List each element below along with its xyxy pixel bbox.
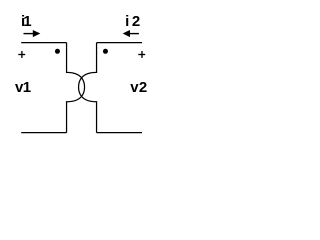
svg-text:2: 2 [132,13,140,30]
polarity + of v1 [18,51,25,58]
winding L2 (right coil) with lead wires [79,43,97,133]
dot marker left winding [55,49,60,54]
svg-text:2: 2 [139,79,147,96]
label v2 [130,79,147,96]
wire bottom-left terminal [21,132,66,134]
svg-text:1: 1 [23,79,31,96]
current arrow i2 [123,30,139,37]
current arrow i1 [24,30,41,37]
svg-text:1: 1 [23,13,31,30]
label i2 [125,13,140,30]
wire bottom-right terminal [97,132,142,134]
svg-text:i: i [125,13,129,30]
label v1 [15,79,31,96]
label i1 [21,13,32,30]
dot marker right winding [103,49,108,54]
winding L1 (left coil) with lead wires [67,43,85,133]
wire top-left terminal [21,42,66,44]
polarity + of v2 [138,51,145,58]
wire top-right terminal [97,42,142,44]
